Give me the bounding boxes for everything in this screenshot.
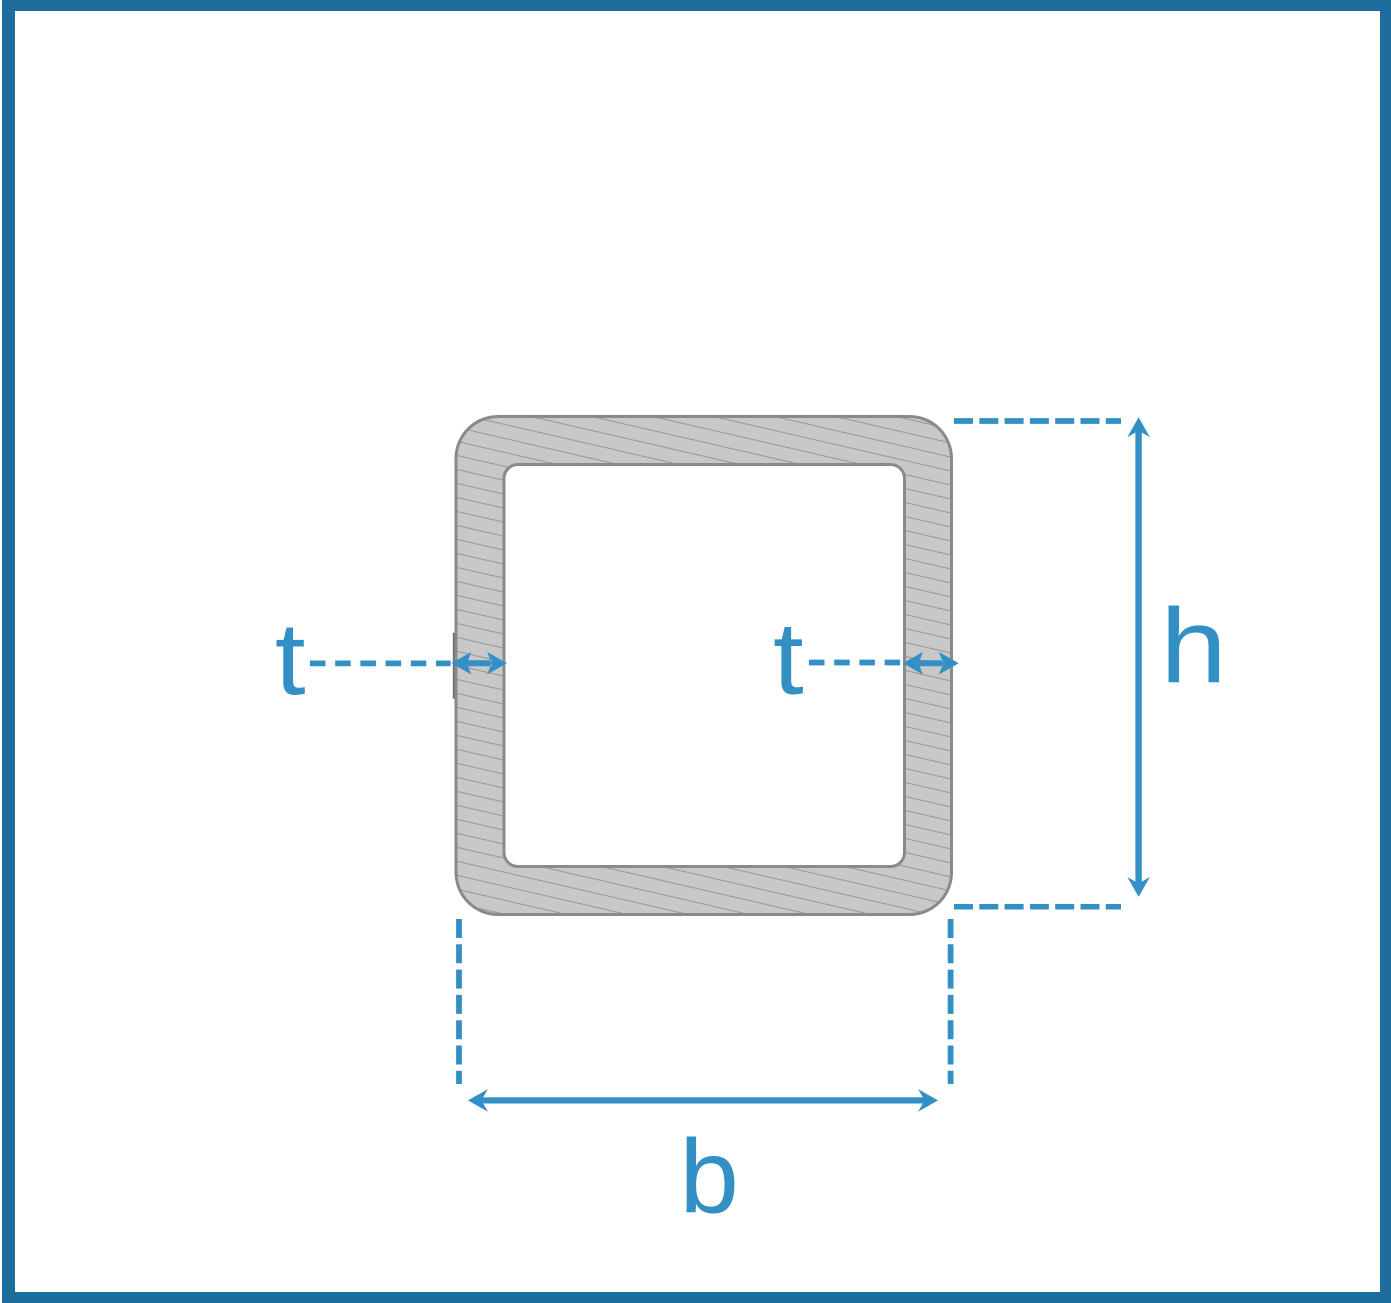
dashed extension line top (h) [954,418,1121,424]
h dimension arrow [1135,430,1141,884]
svg-text:b: b [679,1118,738,1235]
svg-text:t: t [773,600,804,716]
dashed extension line bottom (h) [954,904,1121,910]
border frame right [1380,0,1391,1303]
border frame bottom [2,1292,1391,1303]
t arrow right wall [903,652,959,675]
dashed t leader left [310,661,451,667]
tube inner edge stroke [504,465,905,867]
dashed t leader right [809,660,903,666]
b dimension arrow [481,1097,924,1103]
dashed extension line left (b) [456,919,462,1084]
tube outer edge stroke [456,417,952,915]
t arrow left wall [451,652,507,675]
border frame left [2,0,15,1303]
t tick mark left wall [453,633,455,699]
tube ring hatch [456,417,952,915]
dashed extension line right (b) [948,919,954,1084]
svg-text:h: h [1160,586,1227,704]
tube ring fill [456,417,952,915]
svg-text:t: t [275,600,306,716]
border frame top [2,0,1391,11]
